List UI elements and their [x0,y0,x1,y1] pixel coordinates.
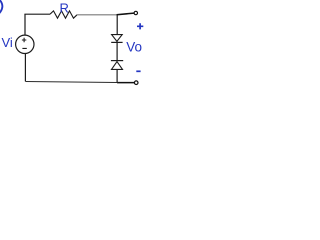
label minus [136,70,140,72]
wire top-right horizontal [77,14,117,16]
svg-text:Vo: Vo [126,39,142,54]
wire top-left horizontal [24,13,50,15]
diode D1 (pointing down) [111,35,122,43]
wire between diodes [116,41,118,60]
svg-text:R: R [60,0,69,15]
label + [137,23,143,29]
terminal + output [134,11,137,14]
svg-text:Vi: Vi [2,35,13,50]
wire junction to + terminal [117,13,134,15]
wire left vertical lower [24,53,26,81]
wire diode branch upper [116,15,118,35]
voltage source Vi [16,35,34,53]
wire top-left vertical [24,14,26,35]
wire bottom horizontal [25,82,117,83]
wire diode branch lower [116,69,118,82]
resistor R [50,11,77,18]
figure label ) [0,0,2,13]
wire junction to - terminal [117,82,134,84]
terminal - output [134,81,138,85]
diode D2 (pointing up) [111,61,123,70]
